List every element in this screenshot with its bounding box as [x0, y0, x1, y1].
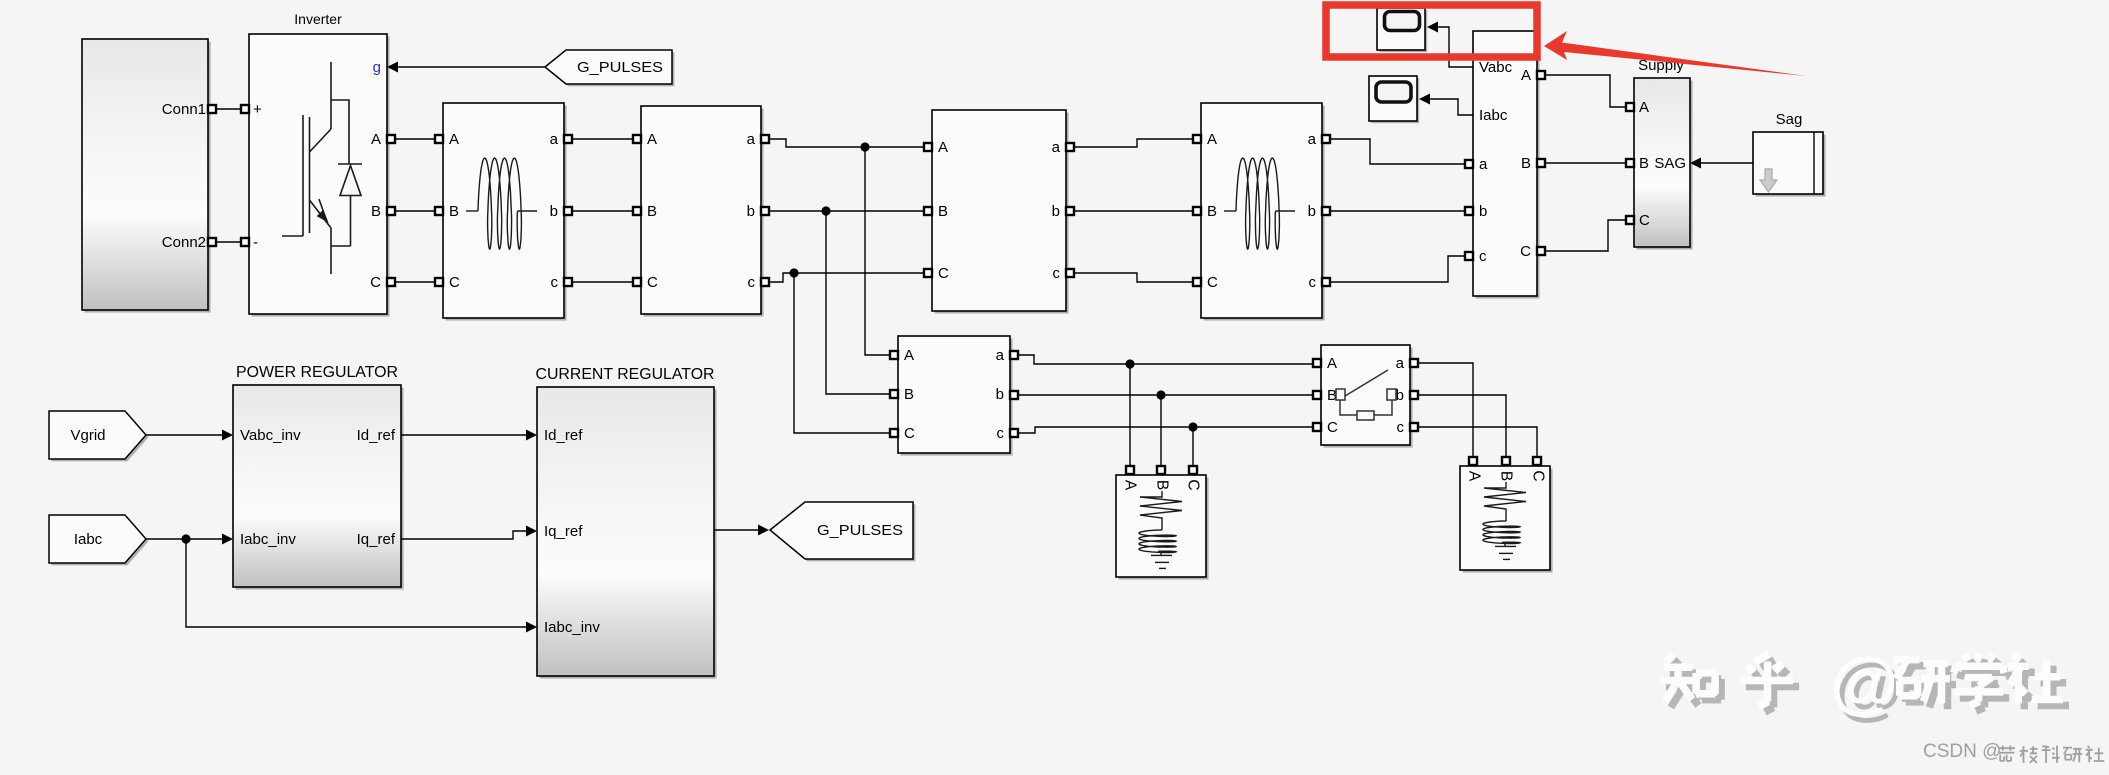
small watermark char ke: [2042, 746, 2060, 763]
arrowhead into supply SAG: [1690, 158, 1701, 169]
svg-text:Inverter: Inverter: [294, 11, 342, 27]
port load1 A: [1126, 466, 1134, 474]
port meas C out: [1537, 247, 1545, 255]
port breaker A in: [1313, 359, 1321, 367]
port load2 C: [1533, 457, 1541, 465]
scope 2 screen: [1376, 82, 1411, 102]
wire meas B to supply B: [1545, 162, 1626, 164]
svg-text:a: a: [1396, 355, 1405, 372]
arrowhead into G_PULSES goto tag: [758, 525, 769, 536]
port load1 B: [1157, 466, 1165, 474]
junction node phase C: [789, 268, 798, 277]
svg-text:C: C: [1639, 212, 1650, 229]
port meas B out: [1537, 159, 1545, 167]
svg-text:b: b: [1052, 203, 1060, 220]
svg-text:Vgrid: Vgrid: [70, 427, 105, 444]
port inverter -: [241, 238, 249, 246]
port L2 C in: [1193, 278, 1201, 286]
wire inverter A to L1: [395, 138, 435, 140]
port L2 a out: [1322, 135, 1330, 143]
red annotation arrow: [1544, 31, 1806, 76]
svg-text:B: B: [904, 386, 914, 403]
svg-text:c: c: [997, 425, 1005, 442]
wire Conn2 to inverter -: [216, 241, 241, 243]
svg-text:A: A: [938, 139, 948, 156]
svg-text:a: a: [996, 347, 1005, 364]
port small-meas b out: [1010, 391, 1018, 399]
port inverter A out: [387, 135, 395, 143]
wire meas Iabc to scope2: [1430, 99, 1473, 115]
CURRENT REGULATOR subsystem: [537, 387, 717, 679]
wire Iabc to preg: [146, 538, 222, 540]
svg-text:Conn2: Conn2: [162, 234, 206, 251]
svg-text:A: A: [449, 131, 459, 148]
svg-text:C: C: [1185, 479, 1202, 490]
small watermark char li: [1998, 746, 2015, 761]
svg-text:a: a: [1052, 139, 1061, 156]
subsystem Conn source block: [82, 39, 211, 313]
port meas c in: [1465, 252, 1473, 260]
svg-text:CURRENT REGULATOR: CURRENT REGULATOR: [536, 366, 715, 383]
port inverter +: [241, 105, 249, 113]
svg-text:CSDN @: CSDN @: [1923, 741, 2001, 762]
wire G_PULSES tag to inverter g: [398, 66, 545, 68]
svg-text:C: C: [1207, 274, 1218, 291]
small watermark char she: [2086, 746, 2105, 762]
port B4 c out: [1066, 269, 1074, 277]
wire B3 a to B4 A: [769, 139, 924, 147]
svg-text:+: +: [253, 101, 262, 118]
port breaker a out: [1410, 359, 1418, 367]
port load1 C: [1189, 466, 1197, 474]
sag subsystem block: [1753, 132, 1826, 197]
svg-text:a: a: [1308, 131, 1317, 148]
wire tap B down to small-meas: [826, 211, 890, 394]
svg-text:G_PULSES: G_PULSES: [577, 59, 663, 76]
POWER REGULATOR subsystem: [233, 385, 404, 590]
input tag Vgrid shadow: [51, 413, 148, 461]
wire L1 a to B3: [572, 138, 633, 140]
svg-text:Iabc: Iabc: [1479, 107, 1508, 124]
port load2 B: [1502, 457, 1510, 465]
svg-text:A: A: [1122, 480, 1139, 491]
port L2 B in: [1193, 207, 1201, 215]
svg-text:C: C: [449, 274, 460, 291]
three-phase inductor block L1: [443, 103, 567, 321]
wire L1 b to B3: [572, 210, 633, 212]
svg-text:Iq_ref: Iq_ref: [544, 523, 583, 540]
sag gray down-arrow icon: [1760, 169, 1777, 192]
three-phase breaker block: [1321, 345, 1413, 448]
inverter IGBT-diode icon: [282, 62, 362, 274]
input tag Iabc: [49, 515, 146, 563]
three-phase RL load block 1 with ground: [1116, 475, 1209, 580]
wire inverter C to L1: [395, 281, 435, 283]
port small-meas c out: [1010, 429, 1018, 437]
svg-text:B: B: [938, 203, 948, 220]
load1 resistor-inductor-ground icon: [1139, 491, 1182, 568]
port L1 B in: [435, 207, 443, 215]
Goto tag G_PULSES (bottom): [770, 502, 913, 559]
three-phase inductor block L2: [1201, 103, 1325, 321]
wire Iq_ref: [401, 531, 526, 539]
wire tap C down to small-meas: [794, 273, 890, 433]
wire B3 b to B4 B: [769, 210, 924, 212]
supply subsystem block: [1634, 78, 1693, 250]
three-phase RL load block 2 with ground: [1460, 466, 1553, 573]
port small-meas B in: [890, 390, 898, 398]
junction to load1 C: [1188, 422, 1197, 431]
port breaker c out: [1410, 423, 1418, 431]
svg-text:B: B: [1207, 203, 1217, 220]
watermark Zhihu @yanxueshe (white layer): [1660, 643, 2063, 721]
wire small-meas b to breaker B: [1018, 394, 1313, 396]
svg-text:SAG: SAG: [1654, 155, 1686, 172]
port B3 in at 211: [633, 207, 641, 215]
port L2 c out: [1322, 278, 1330, 286]
wire drop to load1 A: [1129, 364, 1131, 466]
port B3 b out: [761, 207, 769, 215]
svg-text:C: C: [1327, 419, 1338, 436]
svg-text:B: B: [1639, 155, 1649, 172]
port meas a in: [1465, 160, 1473, 168]
wire L1 c to B3: [572, 281, 633, 283]
port supply A in: [1626, 103, 1634, 111]
wire inverter B to L1: [395, 210, 435, 212]
wire drop to load1 B: [1160, 395, 1162, 466]
svg-text:B: B: [371, 203, 381, 220]
junction node phase B: [821, 206, 830, 215]
wire B4 c to L2 C: [1074, 273, 1193, 282]
svg-text:G_PULSES: G_PULSES: [817, 522, 903, 539]
inverter block U-Inverter: [249, 34, 390, 317]
svg-text:c: c: [1479, 248, 1487, 265]
port inverter B out: [387, 207, 395, 215]
arrowhead into Vabc_inv: [222, 430, 233, 441]
wire Iabc tap to creg Iabc_inv: [186, 539, 526, 627]
three-phase VI measurement block: [1473, 31, 1540, 299]
svg-text:B: B: [1498, 471, 1515, 481]
L1 inductor coil icon: [466, 210, 478, 212]
port B3 c out: [761, 278, 769, 286]
svg-text:Conn1: Conn1: [162, 101, 206, 118]
port breaker B in: [1313, 391, 1321, 399]
wire B3 c to B4 C: [769, 273, 924, 282]
Goto tag G_PULSES (bottom) shadow: [772, 504, 915, 561]
scope block 1: [1377, 8, 1427, 52]
wire breaker a to load2 A: [1418, 363, 1473, 457]
wire Id_ref: [401, 434, 526, 436]
port B3 a out: [761, 135, 769, 143]
port inverter C out: [387, 278, 395, 286]
svg-text:B: B: [647, 203, 657, 220]
input tag Iabc shadow: [51, 517, 148, 565]
port small-meas C in: [890, 429, 898, 437]
svg-text:A: A: [1521, 67, 1531, 84]
svg-text:c: c: [1309, 274, 1317, 291]
svg-text:Iabc_inv: Iabc_inv: [544, 619, 600, 636]
svg-text:a: a: [550, 131, 559, 148]
port L1 a out: [564, 135, 572, 143]
port B4 b out: [1066, 207, 1074, 215]
port breaker C in: [1313, 423, 1321, 431]
wire Conn1 to inverter +: [216, 108, 241, 110]
svg-text:Iabc_inv: Iabc_inv: [240, 531, 296, 548]
svg-text:a: a: [1479, 156, 1488, 173]
wire L2 c to meas c: [1330, 256, 1465, 282]
svg-text:B: B: [1521, 155, 1531, 172]
port breaker b out: [1410, 391, 1418, 399]
port small-meas A in: [890, 351, 898, 359]
svg-text:c: c: [1053, 265, 1061, 282]
junction node phase A: [860, 142, 869, 151]
arrowhead into scope2: [1419, 94, 1430, 105]
port B4 B in: [924, 207, 932, 215]
small watermark char zhizhi: [2020, 746, 2038, 763]
svg-text:C: C: [370, 274, 381, 291]
wire breaker b to load2 B: [1418, 395, 1506, 457]
svg-text:C: C: [647, 274, 658, 291]
svg-text:Sag: Sag: [1776, 111, 1803, 128]
From tag G_PULSES (top) shadow: [547, 52, 674, 86]
port B4 a out: [1066, 143, 1074, 151]
port B4 A in: [924, 143, 932, 151]
wire small-meas a to breaker A: [1018, 355, 1313, 364]
svg-text:c: c: [748, 274, 756, 291]
wire B4 a to L2 A: [1074, 139, 1193, 147]
wire creg output to G_PULSES tag: [714, 529, 758, 531]
port L1 b out: [564, 207, 572, 215]
small watermark char yan: [2063, 748, 2082, 763]
svg-text:b: b: [550, 203, 558, 220]
wire meas A to supply A: [1545, 75, 1626, 107]
wire L2 a to meas a: [1330, 139, 1465, 164]
scope block 2: [1369, 76, 1419, 123]
svg-text:Id_ref: Id_ref: [357, 427, 396, 444]
wire Vgrid to preg: [146, 434, 222, 436]
arrowhead into creg Iabc_inv: [526, 622, 537, 633]
svg-text:Vabc: Vabc: [1479, 59, 1513, 76]
junction to load1 B: [1156, 390, 1165, 399]
svg-text:g: g: [373, 59, 381, 76]
wire meas C to supply C: [1545, 220, 1626, 251]
svg-text:b: b: [1396, 387, 1404, 404]
svg-text:POWER REGULATOR: POWER REGULATOR: [236, 364, 398, 381]
svg-text:A: A: [647, 131, 657, 148]
port L1 c out: [564, 278, 572, 286]
svg-text:c: c: [1397, 419, 1405, 436]
svg-text:b: b: [996, 386, 1004, 403]
svg-text:Vabc_inv: Vabc_inv: [240, 427, 301, 444]
arrowhead into creg Id_ref: [526, 430, 537, 441]
watermark Zhihu @yanxueshe (gray shadow layer): [1666, 649, 2069, 727]
svg-text:b: b: [1479, 203, 1487, 220]
port L1 A in: [435, 135, 443, 143]
svg-text:Id_ref: Id_ref: [544, 427, 583, 444]
wire breaker c to load2 C: [1418, 427, 1537, 457]
input tag Vgrid: [49, 411, 146, 459]
wire tap A down to small-meas: [865, 147, 890, 355]
wire meas Vabc to scope1: [1438, 27, 1473, 67]
svg-text:A: A: [904, 347, 914, 364]
wire sag to supply SAG: [1701, 162, 1753, 164]
port Conn2: [208, 238, 216, 246]
port L2 b out: [1322, 207, 1330, 215]
breaker switch icon: [1336, 370, 1396, 420]
three-phase block B3: [641, 106, 764, 317]
port supply B in: [1626, 159, 1634, 167]
arrowhead into Iabc_inv: [222, 534, 233, 545]
svg-text:C: C: [938, 265, 949, 282]
wire drop to load1 C: [1192, 427, 1194, 466]
port load2 A: [1469, 457, 1477, 465]
svg-text:A: A: [371, 131, 381, 148]
arrowhead into g port: [387, 62, 398, 73]
svg-text:C: C: [1520, 243, 1531, 260]
wire B4 b to L2 B: [1074, 210, 1193, 212]
wire L2 b to meas b: [1330, 210, 1465, 212]
svg-text:@: @: [1830, 643, 1898, 721]
port B4 C in: [924, 269, 932, 277]
svg-text:b: b: [747, 203, 755, 220]
svg-text:A: A: [1639, 99, 1649, 116]
sag block inner divider line: [1813, 132, 1815, 194]
svg-text:A: A: [1207, 131, 1217, 148]
port Conn1: [208, 105, 216, 113]
three-phase measurement block small: [898, 336, 1013, 456]
From tag G_PULSES (top): [545, 50, 672, 84]
port meas A out: [1537, 71, 1545, 79]
port supply C in: [1626, 216, 1634, 224]
svg-text:b: b: [1308, 203, 1316, 220]
port small-meas a out: [1010, 351, 1018, 359]
svg-text:-: -: [253, 234, 258, 251]
junction to load1 A: [1125, 359, 1134, 368]
port meas b in: [1465, 207, 1473, 215]
port B3 in at 139: [633, 135, 641, 143]
scope 1 screen: [1385, 12, 1420, 31]
svg-text:c: c: [551, 274, 559, 291]
red highlight rectangle: [1326, 5, 1537, 57]
svg-text:C: C: [904, 425, 915, 442]
svg-text:A: A: [1327, 355, 1337, 372]
svg-text:Iq_ref: Iq_ref: [357, 531, 396, 548]
port B3 in at 282: [633, 278, 641, 286]
svg-text:Iabc: Iabc: [74, 531, 103, 548]
wire small-meas c to breaker C: [1018, 427, 1313, 433]
L2 inductor coil icon: [1224, 210, 1236, 212]
port L1 C in: [435, 278, 443, 286]
port L2 A in: [1193, 135, 1201, 143]
arrowhead into creg Iq_ref: [526, 526, 537, 537]
svg-text:A: A: [1466, 471, 1483, 482]
three-phase block B4: [932, 110, 1069, 314]
junction Iabc: [181, 534, 190, 543]
svg-text:C: C: [1530, 470, 1547, 481]
load2 resistor-inductor-ground icon: [1483, 482, 1526, 559]
svg-text:B: B: [449, 203, 459, 220]
arrowhead into scope1: [1427, 22, 1438, 33]
svg-text:a: a: [747, 131, 756, 148]
svg-text:B: B: [1154, 480, 1171, 490]
